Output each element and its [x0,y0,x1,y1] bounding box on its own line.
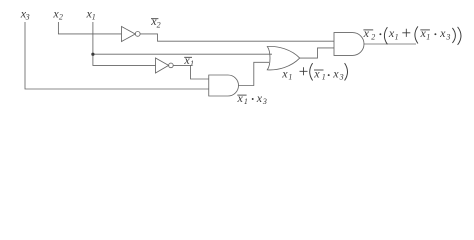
label x2 [52,6,63,21]
wire x1 branch to OR gate [93,53,272,55]
svg-text:1: 1 [426,32,430,41]
wire AND1 output to OR gate [239,62,270,85]
svg-text:2: 2 [59,12,63,21]
svg-text:x: x [313,67,320,81]
wire OR output to final AND [300,48,334,58]
svg-text:x: x [363,26,370,40]
inverter U1 for x2 [122,27,136,42]
svg-text:1: 1 [190,59,194,68]
svg-text:1: 1 [244,97,248,106]
svg-text:3: 3 [445,32,450,41]
svg-text:1: 1 [322,73,326,82]
label x2bar at NOT1 output [150,14,160,29]
wire NOT2 output x1bar to AND1 [173,65,209,79]
label x2bar.(x1+(x1bar.x3)) above output [363,26,461,45]
label x1+(x1bar.x3) right of OR [281,63,347,82]
svg-text:2: 2 [157,20,161,29]
svg-text:x: x [237,91,244,105]
junction node on x1 [91,53,94,56]
inverter U2 for x1 [156,58,169,73]
svg-text:x: x [256,91,263,105]
label x1 [86,6,96,21]
wire x3 input [25,22,209,89]
svg-text:3: 3 [262,97,267,106]
label x3 [20,6,30,21]
AND gate U3 (x1bar AND x3) [209,75,239,96]
svg-text:x: x [439,26,446,40]
svg-text:3: 3 [25,12,30,21]
svg-text:3: 3 [339,73,344,82]
label x1bar at NOT2 output [183,53,194,68]
wire x2 input [58,22,121,34]
label x1bar.x3 under AND1 [237,91,267,106]
AND gate U4 final [334,33,364,56]
svg-text:1: 1 [288,73,292,82]
svg-text:1: 1 [92,12,96,21]
svg-text:2: 2 [371,32,375,41]
svg-text:x: x [332,67,339,81]
wire x1 input [93,22,156,65]
svg-text:1: 1 [395,32,399,41]
wire final output [364,43,416,45]
svg-text:x: x [281,67,288,81]
OR gate U5 [267,46,299,70]
wire NOT1 output x2bar to final AND [140,34,334,41]
